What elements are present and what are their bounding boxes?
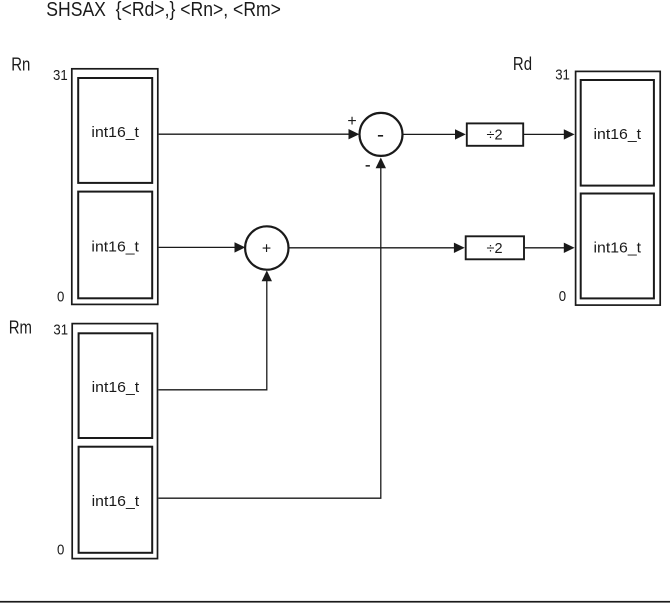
register Rd bit 0 label <box>559 287 566 304</box>
svg-text:0: 0 <box>559 287 566 304</box>
register Rm bit 0 label <box>57 541 64 558</box>
svg-text:+: + <box>262 241 271 258</box>
plus sign at subtractor upper input <box>347 113 356 130</box>
svg-text:31: 31 <box>53 66 68 83</box>
svg-text:int16_t: int16_t <box>91 124 139 141</box>
register Rm bit 31 label <box>53 320 68 337</box>
wire top divider to Rd high halfword <box>524 129 575 139</box>
register Rd outer box <box>576 71 661 305</box>
register Rd low halfword box int16_t <box>581 194 654 299</box>
wire Rm low halfword to subtractor (right then up) <box>158 158 386 499</box>
svg-text:÷2: ÷2 <box>486 127 502 143</box>
wire bottom divider to Rd low halfword <box>525 243 575 253</box>
svg-text:int16_t: int16_t <box>92 493 140 510</box>
svg-text:Rd: Rd <box>513 54 532 75</box>
svg-text:SHSAX {<Rd>,} <Rn>, <Rm>: SHSAX {<Rd>,} <Rn>, <Rm> <box>46 0 281 20</box>
svg-text:int16_t: int16_t <box>91 238 139 255</box>
register Rm high halfword box int16_t <box>79 333 153 438</box>
wire subtractor to top divider <box>403 129 466 139</box>
page footer rule <box>0 601 670 603</box>
register Rm name label <box>9 317 32 338</box>
register Rn high halfword box int16_t <box>78 78 152 183</box>
register Rd high halfword box int16_t <box>581 80 654 186</box>
register Rm low halfword box int16_t <box>79 447 153 553</box>
register Rn bit 0 label <box>57 288 64 305</box>
register Rd name label <box>513 54 532 75</box>
register Rn outer box <box>72 69 158 305</box>
svg-text:int16_t: int16_t <box>92 379 140 396</box>
svg-text:int16_t: int16_t <box>594 126 642 143</box>
title: SHSAX instruction syntax <box>46 0 281 20</box>
svg-text:÷2: ÷2 <box>486 241 502 257</box>
svg-text:+: + <box>347 113 356 130</box>
subtractor node S1 (circle with minus) <box>360 113 403 156</box>
adder node A1 (circle with plus) <box>245 226 288 269</box>
svg-text:Rm: Rm <box>9 317 32 338</box>
svg-text:0: 0 <box>57 541 64 558</box>
svg-text:31: 31 <box>555 66 570 83</box>
svg-text:int16_t: int16_t <box>594 239 642 256</box>
divider box DIV1 (top, divide by two) <box>467 123 523 145</box>
register Rn name label <box>11 54 30 75</box>
wire Rn high halfword to subtractor <box>159 129 360 139</box>
register Rd bit 31 label <box>555 66 570 83</box>
register Rn bit 31 label <box>53 66 68 83</box>
minus sign at subtractor lower input <box>366 165 370 167</box>
wire Rm high halfword to adder (right then up) <box>158 270 272 389</box>
wire Rn low halfword to adder <box>159 242 246 252</box>
svg-text:Rn: Rn <box>11 54 30 75</box>
svg-text:31: 31 <box>53 320 68 337</box>
register Rm outer box <box>72 324 157 559</box>
divider box DIV2 (bottom, divide by two) <box>466 236 524 259</box>
svg-text:0: 0 <box>57 288 64 305</box>
register Rn low halfword box int16_t <box>78 192 152 299</box>
wire adder to bottom divider <box>289 243 465 253</box>
